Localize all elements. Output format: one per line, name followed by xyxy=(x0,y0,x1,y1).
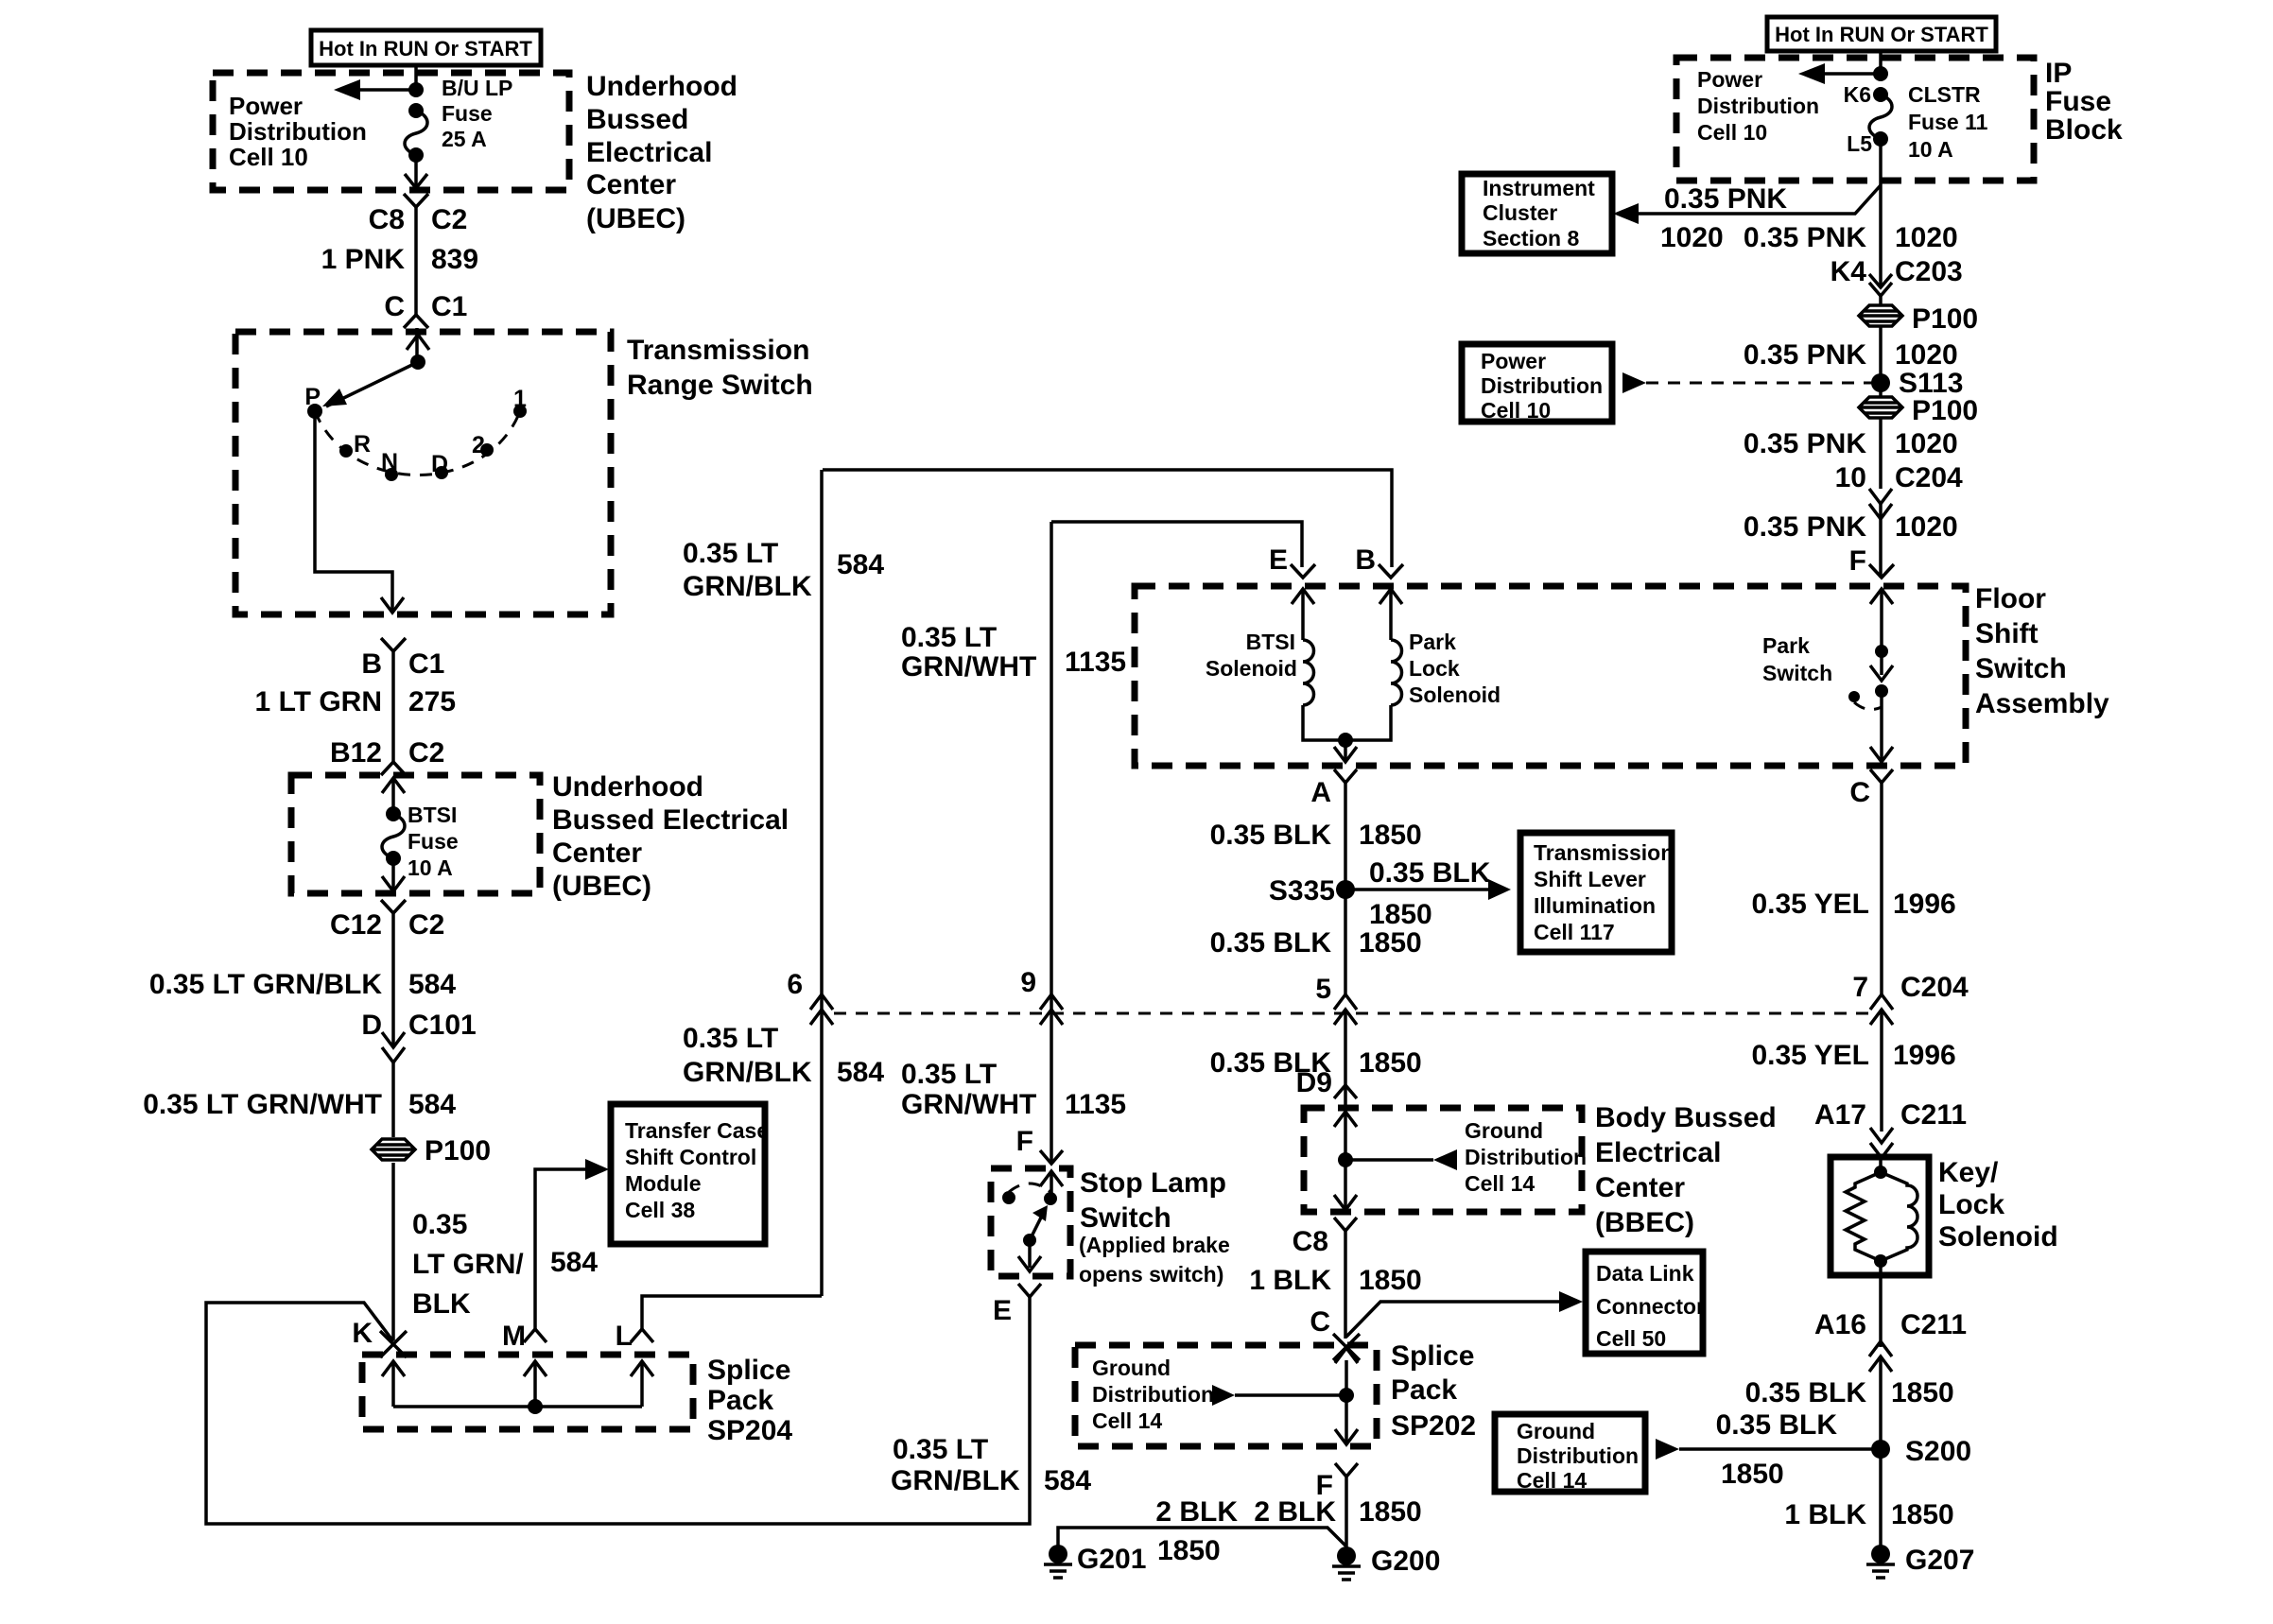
wire: SP204 L leg with arrow xyxy=(631,1361,653,1407)
reference box: Power Distribution Cell 10 xyxy=(1462,344,1612,423)
svg-text:C101: C101 xyxy=(408,1010,477,1041)
svg-text:Fuse: Fuse xyxy=(408,829,459,854)
svg-text:0.35 LT: 0.35 LT xyxy=(901,622,997,653)
svg-text:C8: C8 xyxy=(369,204,405,235)
svg-text:25 A: 25 A xyxy=(442,127,487,151)
connector A xyxy=(1310,769,1357,808)
svg-text:1 BLK: 1 BLK xyxy=(1249,1265,1331,1296)
wire: P contact to TRS output xyxy=(315,418,392,610)
svg-text:M: M xyxy=(502,1321,526,1352)
component box: Key/Lock Solenoid xyxy=(1831,1157,2058,1275)
svg-text:BLK: BLK xyxy=(412,1288,471,1320)
svg-text:LT GRN/: LT GRN/ xyxy=(412,1249,524,1280)
connector C204-7 xyxy=(1852,972,1969,1025)
svg-text:GRN/BLK: GRN/BLK xyxy=(891,1465,1020,1496)
wire: data link connector branch xyxy=(1346,1291,1583,1337)
connector L xyxy=(616,1321,653,1352)
svg-text:Switch: Switch xyxy=(1975,653,2067,684)
fuse: BTSI Fuse 10 A xyxy=(382,803,459,880)
svg-text:B/U LP: B/U LP xyxy=(442,76,512,100)
svg-text:584: 584 xyxy=(550,1247,598,1278)
svg-text:1850: 1850 xyxy=(1359,1265,1422,1296)
svg-text:P100: P100 xyxy=(425,1135,491,1166)
svg-text:Pack: Pack xyxy=(1391,1374,1457,1406)
wire: 0.35 LT GRN/BLK to splice pack xyxy=(393,1163,524,1340)
svg-text:L: L xyxy=(616,1321,633,1352)
svg-text:K4: K4 xyxy=(1831,256,1867,287)
connector B (floor shift switch assembly) xyxy=(1355,544,1403,578)
svg-text:Splice: Splice xyxy=(707,1355,790,1386)
connector C (floor shift switch) xyxy=(1849,769,1893,808)
svg-text:Switch: Switch xyxy=(1762,661,1832,685)
svg-text:D: D xyxy=(431,451,448,477)
svg-text:P: P xyxy=(304,384,321,410)
svg-text:Power: Power xyxy=(229,92,303,120)
wire: park switch to box bottom with arrow xyxy=(1870,691,1893,762)
svg-text:584: 584 xyxy=(837,1057,884,1088)
svg-text:1850: 1850 xyxy=(1359,927,1422,959)
svg-text:584: 584 xyxy=(837,549,884,580)
node: S200 xyxy=(1871,1436,1971,1467)
svg-text:SP204: SP204 xyxy=(707,1415,792,1446)
svg-text:1 PNK: 1 PNK xyxy=(321,244,406,275)
svg-text:1020: 1020 xyxy=(1660,222,1724,253)
svg-text:Switch: Switch xyxy=(1080,1202,1171,1234)
svg-text:Cell 10: Cell 10 xyxy=(1481,398,1551,423)
connector F (SP202) xyxy=(1316,1463,1358,1501)
svg-text:Transfer Case: Transfer Case xyxy=(625,1118,769,1143)
svg-text:L5: L5 xyxy=(1847,131,1872,156)
wire: L leg up to 584 junction xyxy=(642,1296,822,1329)
resistor (key/lock) xyxy=(1846,1172,1881,1261)
svg-text:C1: C1 xyxy=(408,648,444,680)
svg-text:Distribution: Distribution xyxy=(229,117,367,146)
connector C2-B12 (UBEC) xyxy=(381,762,406,775)
switch contact (fixed, left) xyxy=(1002,1191,1015,1204)
component box: Splice Pack SP202 with Ground Distribution Cell 14 xyxy=(1075,1340,1476,1446)
arrow into BTSI fuse box xyxy=(382,778,405,814)
svg-text:Connector: Connector xyxy=(1596,1294,1705,1319)
label: 0.35 BLK 1850 (below S335) xyxy=(1210,927,1422,959)
svg-text:1135: 1135 xyxy=(1065,647,1126,678)
svg-text:B: B xyxy=(1355,544,1376,576)
wire: C203 to P100 xyxy=(1879,296,1883,383)
svg-text:(UBEC): (UBEC) xyxy=(552,871,651,902)
component box: Stop Lamp Switch xyxy=(991,1167,1230,1287)
svg-text:584: 584 xyxy=(408,969,456,1000)
svg-text:0.35 LT: 0.35 LT xyxy=(683,1023,778,1054)
ground G200 xyxy=(1332,1546,1440,1580)
svg-text:2 BLK: 2 BLK xyxy=(1155,1496,1238,1528)
wire: 1135 vertical (9) xyxy=(1050,522,1053,1164)
connector 6 xyxy=(787,969,833,1025)
wire: power distribution dashed branch to S113 xyxy=(1622,372,1881,393)
label: 0.35 PNK 1020 (to S113) xyxy=(1744,339,1958,371)
grommet P100 (right lower) xyxy=(1859,395,1978,426)
switch wiper arrow to P xyxy=(322,362,418,406)
svg-text:Cluster: Cluster xyxy=(1483,200,1557,225)
component box: Underhood Bussed Electrical Center (UBEC) xyxy=(213,71,737,234)
switch arm with arrow xyxy=(1030,1205,1048,1240)
fuse: B/U LP Fuse 25 A xyxy=(405,76,512,163)
wire: SP202 out with arrow xyxy=(1335,1395,1358,1444)
wire: S113 to P100 lower xyxy=(1879,383,1883,489)
svg-text:Underhood: Underhood xyxy=(552,771,703,803)
connector M xyxy=(502,1321,547,1352)
svg-text:0.35 PNK: 0.35 PNK xyxy=(1744,339,1866,371)
svg-text:0.35 YEL: 0.35 YEL xyxy=(1751,1040,1869,1071)
wire: BBEC out with arrow xyxy=(1334,1160,1357,1210)
wire: 1 BLK 1850 xyxy=(1249,1231,1421,1339)
svg-text:BTSI: BTSI xyxy=(1246,630,1295,654)
svg-text:0.35 BLK: 0.35 BLK xyxy=(1716,1409,1838,1441)
arrow into floor box (park feed) xyxy=(1870,589,1893,604)
connector E (stop lamp switch) xyxy=(993,1284,1041,1326)
flag box: Hot In RUN Or START (right) xyxy=(1767,17,1996,51)
connector C2 (UBEC) xyxy=(404,194,428,207)
wire: instrument cluster branch xyxy=(1613,183,1881,253)
svg-text:C8: C8 xyxy=(1293,1226,1328,1257)
label: 0.35 PNK 1020 (to C203) xyxy=(1744,222,1963,287)
svg-text:GRN/WHT: GRN/WHT xyxy=(901,651,1036,682)
svg-text:Electrical: Electrical xyxy=(1595,1137,1721,1168)
wire: fuse output down through IP box xyxy=(1879,139,1883,288)
switch arm park switch (arrow) xyxy=(1870,651,1893,681)
svg-text:Electrical: Electrical xyxy=(586,137,712,168)
svg-text:Cell 14: Cell 14 xyxy=(1092,1408,1162,1433)
svg-text:Shift Lever: Shift Lever xyxy=(1534,867,1646,891)
svg-text:Section 8: Section 8 xyxy=(1483,226,1579,251)
svg-text:Transmission: Transmission xyxy=(1534,840,1674,865)
reference box: Transmission Shift Lever Illumination Cell 117 xyxy=(1520,833,1674,952)
wire: 1135 horizontal to BTSI solenoid E xyxy=(1051,522,1302,567)
svg-text:1020: 1020 xyxy=(1895,339,1958,371)
svg-text:Shift: Shift xyxy=(1975,618,2039,649)
svg-text:10 A: 10 A xyxy=(408,855,453,880)
coil: BTSI Solenoid xyxy=(1206,630,1314,705)
svg-text:C204: C204 xyxy=(1895,462,1963,493)
switch contact 2 xyxy=(472,432,494,458)
reference box: Data Link Connector Cell 50 xyxy=(1586,1252,1705,1354)
svg-text:Lock: Lock xyxy=(1409,656,1460,681)
svg-text:(Applied brake: (Applied brake xyxy=(1079,1233,1230,1257)
svg-text:Data Link: Data Link xyxy=(1596,1261,1694,1286)
switch pivot xyxy=(1023,1234,1036,1247)
flag box: Hot In RUN Or START (left) xyxy=(311,30,541,65)
svg-text:Solenoid: Solenoid xyxy=(1409,682,1501,707)
label: 0.35 LT GRN/WHT 1135 (top) xyxy=(901,622,1126,682)
svg-text:839: 839 xyxy=(431,244,478,275)
svg-text:C12: C12 xyxy=(330,909,382,941)
wire: key/lock to A16 xyxy=(1879,1261,1883,1347)
svg-text:Cell 10: Cell 10 xyxy=(229,143,308,171)
connector C8 (BBEC) xyxy=(1293,1218,1357,1257)
switch contact R xyxy=(339,431,371,458)
svg-text:1850: 1850 xyxy=(1359,1047,1422,1079)
svg-text:10 A: 10 A xyxy=(1908,137,1953,162)
svg-text:0.35 PNK: 0.35 PNK xyxy=(1744,222,1866,253)
svg-text:G200: G200 xyxy=(1371,1546,1440,1577)
svg-text:Body Bussed: Body Bussed xyxy=(1595,1102,1777,1133)
svg-text:7: 7 xyxy=(1852,972,1868,1003)
svg-text:1850: 1850 xyxy=(1891,1377,1954,1408)
svg-text:1850: 1850 xyxy=(1359,820,1422,851)
svg-text:2 BLK: 2 BLK xyxy=(1254,1496,1336,1528)
arrow into box (B leg) xyxy=(1379,589,1402,640)
component box: UBEC (BTSI fuse) xyxy=(291,771,789,902)
svg-text:G207: G207 xyxy=(1905,1545,1974,1576)
svg-text:Illumination: Illumination xyxy=(1534,893,1656,918)
svg-text:Floor: Floor xyxy=(1975,583,2046,614)
svg-text:C1: C1 xyxy=(431,291,467,322)
grommet P100 (left) xyxy=(372,1135,491,1166)
ground G207 xyxy=(1866,1545,1974,1578)
wire: SP202 ground distribution branch xyxy=(1212,1385,1346,1406)
svg-text:A: A xyxy=(1310,777,1331,808)
wire: 1 PNK 839 xyxy=(321,204,478,322)
svg-text:9: 9 xyxy=(1020,967,1036,998)
node: solenoid common xyxy=(1338,733,1353,748)
svg-text:Solenoid: Solenoid xyxy=(1206,656,1297,681)
grommet P100 (right upper) xyxy=(1859,303,1978,335)
svg-text:1996: 1996 xyxy=(1893,1040,1956,1071)
svg-text:C2: C2 xyxy=(431,204,467,235)
svg-text:0.35 PNK: 0.35 PNK xyxy=(1664,183,1787,215)
arrow into box (E leg) xyxy=(1292,589,1314,640)
svg-text:GRN/WHT: GRN/WHT xyxy=(901,1089,1036,1120)
wire: S335 branch to illumination with labels xyxy=(1345,857,1511,930)
node: BBEC ground splice xyxy=(1338,1152,1353,1167)
label: 0.35 LT GRN/BLK 584 (top) xyxy=(683,538,884,602)
connector 5 xyxy=(1315,974,1357,1025)
node: TRS common xyxy=(410,354,425,370)
svg-text:Ground: Ground xyxy=(1517,1419,1595,1443)
wire: power distribution branch arrow (IP) xyxy=(1798,63,1888,84)
svg-text:1 LT GRN: 1 LT GRN xyxy=(255,686,382,717)
svg-text:S200: S200 xyxy=(1905,1436,1971,1467)
svg-text:5: 5 xyxy=(1315,974,1331,1005)
svg-text:CLSTR: CLSTR xyxy=(1908,82,1981,107)
svg-text:IP: IP xyxy=(2045,58,2072,89)
component box: Body Bussed Electrical Center (BBEC) xyxy=(1304,1102,1777,1238)
svg-text:6: 6 xyxy=(787,969,803,1000)
svg-text:Bussed: Bussed xyxy=(586,104,688,135)
svg-text:Distribution: Distribution xyxy=(1697,94,1819,118)
svg-text:A17: A17 xyxy=(1814,1099,1866,1131)
wire: 0.35 BLK 1850 (A16 to S200) xyxy=(1745,1356,1954,1555)
coil (key/lock) xyxy=(1881,1172,1917,1261)
svg-text:1020: 1020 xyxy=(1895,222,1958,253)
park switch throw arc xyxy=(1854,702,1882,710)
wire: 1 LT GRN 275 xyxy=(255,648,457,769)
svg-text:Key/: Key/ xyxy=(1938,1157,1999,1188)
svg-text:0.35 BLK: 0.35 BLK xyxy=(1210,927,1332,959)
svg-text:0.35 BLK: 0.35 BLK xyxy=(1745,1377,1867,1408)
svg-text:Park: Park xyxy=(1409,630,1456,654)
wire: common out of box with arrow xyxy=(1334,740,1357,762)
node: S335 xyxy=(1269,875,1355,907)
svg-text:Ground: Ground xyxy=(1465,1118,1543,1143)
switch contact P xyxy=(304,384,322,419)
label: 0.35 LT GRN/WHT 1135 (lower) xyxy=(901,1059,1126,1120)
svg-text:C204: C204 xyxy=(1900,972,1969,1003)
svg-text:0.35 YEL: 0.35 YEL xyxy=(1751,889,1869,920)
switch contact N xyxy=(381,449,398,481)
svg-text:Center: Center xyxy=(552,838,642,869)
wire: ground distribution to S200 xyxy=(1656,1409,1881,1490)
label: 0.35 LT GRN/BLK 584 (stop lamp out) xyxy=(891,1434,1091,1496)
svg-text:1996: 1996 xyxy=(1893,889,1956,920)
svg-text:R: R xyxy=(354,431,371,458)
svg-text:1 BLK: 1 BLK xyxy=(1784,1499,1866,1530)
svg-text:0.35 LT GRN/WHT: 0.35 LT GRN/WHT xyxy=(143,1089,382,1120)
svg-text:(BBEC): (BBEC) xyxy=(1595,1207,1694,1238)
connector C203-K4 xyxy=(1869,274,1892,296)
svg-text:Instrument: Instrument xyxy=(1483,176,1595,200)
svg-text:2: 2 xyxy=(472,432,485,458)
connector E (floor shift switch assembly) xyxy=(1269,544,1315,578)
svg-text:F: F xyxy=(1016,1126,1033,1157)
svg-text:Distribution: Distribution xyxy=(1092,1382,1214,1407)
svg-text:Power: Power xyxy=(1481,349,1546,373)
reference box: Transfer Case Shift Control Module Cell 38 xyxy=(611,1104,769,1244)
wire: fuse to box bottom with arrow xyxy=(382,858,405,891)
connector C211-A16 xyxy=(1814,1309,1967,1372)
svg-text:Ground: Ground xyxy=(1092,1356,1171,1380)
wire: 0.35 YEL 1996 (C204 to C211) xyxy=(1751,1010,1955,1132)
label: 1 BLK 1850 xyxy=(1784,1499,1953,1530)
wire: 584 vertical (6) xyxy=(820,470,824,1296)
wire: G201 to G200 link xyxy=(1058,1528,1346,1566)
svg-text:1850: 1850 xyxy=(1359,1496,1422,1528)
svg-text:1135: 1135 xyxy=(1065,1089,1126,1120)
svg-text:Power: Power xyxy=(1697,67,1762,92)
svg-text:0.35 LT: 0.35 LT xyxy=(683,538,778,569)
label: 0.35 LT GRN/BLK 584 (lower) xyxy=(683,1023,884,1088)
svg-text:0.35: 0.35 xyxy=(412,1209,467,1240)
svg-text:Distribution: Distribution xyxy=(1517,1443,1639,1468)
svg-text:Cell 50: Cell 50 xyxy=(1596,1326,1666,1351)
svg-text:E: E xyxy=(1269,544,1288,576)
node: key/lock top xyxy=(1879,1155,1883,1172)
svg-text:Range Switch: Range Switch xyxy=(627,370,813,401)
wire: 0.35 BLK 1850 (5 to D9) xyxy=(1210,1010,1422,1085)
wire: power distribution branch arrow (UBEC) xyxy=(334,79,424,100)
svg-text:BTSI: BTSI xyxy=(408,803,457,827)
svg-text:Underhood: Underhood xyxy=(586,71,737,102)
svg-text:Fuse: Fuse xyxy=(442,101,493,126)
svg-text:P100: P100 xyxy=(1912,303,1978,335)
svg-text:1020: 1020 xyxy=(1895,511,1958,543)
svg-text:C: C xyxy=(1310,1306,1330,1338)
component box: Floor Shift Switch Assembly xyxy=(1135,583,2109,766)
wire: hot feed into UBEC xyxy=(414,65,418,90)
svg-text:0.35 PNK: 0.35 PNK xyxy=(1744,428,1866,459)
connector K (splice pack SP204) xyxy=(352,1318,407,1357)
switch contact D xyxy=(431,451,448,479)
fuse: CLSTR Fuse 11 10 A xyxy=(1844,82,1988,162)
reference box: Ground Distribution Cell 14 (solid) xyxy=(1495,1414,1645,1493)
svg-text:Distribution: Distribution xyxy=(1465,1145,1587,1169)
svg-text:opens switch): opens switch) xyxy=(1079,1262,1223,1287)
svg-text:Bussed Electrical: Bussed Electrical xyxy=(552,804,789,836)
svg-text:C211: C211 xyxy=(1900,1309,1967,1340)
svg-text:(UBEC): (UBEC) xyxy=(586,203,685,234)
svg-text:Park: Park xyxy=(1762,633,1810,658)
svg-text:Center: Center xyxy=(586,169,676,200)
switch contact 1 xyxy=(513,386,527,418)
page separator dashed line xyxy=(834,1012,1877,1015)
svg-text:C: C xyxy=(1849,777,1870,808)
svg-text:1850: 1850 xyxy=(1721,1459,1784,1490)
splice bus SP204 xyxy=(393,1405,642,1408)
svg-text:0.35 LT: 0.35 LT xyxy=(901,1059,997,1090)
park switch pivot dot and label xyxy=(1762,633,1860,702)
svg-text:Solenoid: Solenoid xyxy=(1938,1221,2058,1253)
svg-text:B12: B12 xyxy=(330,737,382,769)
connector C101-D xyxy=(382,1032,405,1063)
svg-text:584: 584 xyxy=(408,1089,456,1120)
connector 9 xyxy=(1020,967,1063,1025)
connector F (floor shift switch) xyxy=(1849,545,1894,578)
connector C1-B (below TRS) xyxy=(381,638,406,651)
svg-text:0.35 BLK: 0.35 BLK xyxy=(1210,820,1332,851)
svg-text:Assembly: Assembly xyxy=(1975,688,2109,719)
svg-text:275: 275 xyxy=(408,686,456,717)
arrow into stop lamp switch xyxy=(1040,1171,1063,1199)
connector C204-10 xyxy=(1869,489,1892,519)
wire: park switch feed inside box xyxy=(1880,589,1883,651)
arrow into BBEC xyxy=(1334,1085,1357,1160)
svg-text:C: C xyxy=(384,291,405,322)
svg-text:0.35 PNK: 0.35 PNK xyxy=(1744,511,1866,543)
component box: IP Fuse Block xyxy=(1676,58,2123,181)
ground G201 xyxy=(1044,1544,1146,1578)
svg-text:D9: D9 xyxy=(1296,1067,1332,1098)
svg-text:GRN/BLK: GRN/BLK xyxy=(683,571,812,602)
wire: switch pivot to box bottom with arrow xyxy=(1018,1240,1041,1271)
svg-text:Splice: Splice xyxy=(1391,1340,1474,1372)
node: SP204 splice xyxy=(528,1399,543,1414)
svg-text:Fuse: Fuse xyxy=(2045,86,2111,117)
svg-text:Fuse 11: Fuse 11 xyxy=(1908,110,1988,134)
svg-text:1: 1 xyxy=(513,386,527,412)
svg-text:Cell 117: Cell 117 xyxy=(1534,920,1615,944)
svg-text:GRN/BLK: GRN/BLK xyxy=(683,1057,812,1088)
wire: 584 horizontal to park lock solenoid B xyxy=(823,470,1392,567)
wire: into transmission range switch xyxy=(415,328,419,362)
wire: 0.35 BLK 1850 (A to S335) xyxy=(1210,783,1422,994)
svg-text:1850: 1850 xyxy=(1157,1535,1221,1566)
component box: Transmission Range Switch xyxy=(235,332,813,614)
wire: solenoid common bus xyxy=(1303,705,1391,740)
wire: fuse output to UBEC border with arrow xyxy=(405,155,427,188)
svg-text:Hot In RUN Or START: Hot In RUN Or START xyxy=(1775,23,1988,46)
svg-text:Distribution: Distribution xyxy=(1481,373,1603,398)
switch contact arc P-R-N-D-2-1 xyxy=(315,411,520,475)
wire: 584 to Transfer Case Shift Control Module xyxy=(535,1159,609,1329)
wire: SP204 M leg with arrow xyxy=(524,1361,547,1407)
wire: loop from stop lamp switch E to K xyxy=(206,1297,1030,1524)
switch contact (fixed, right) xyxy=(1044,1192,1057,1205)
svg-text:S335: S335 xyxy=(1269,875,1335,907)
svg-text:C2: C2 xyxy=(408,909,444,941)
svg-text:K: K xyxy=(352,1318,373,1349)
svg-text:Block: Block xyxy=(2045,114,2123,146)
svg-text:Center: Center xyxy=(1595,1172,1685,1203)
wire: 0.35 LT GRN/WHT 584 xyxy=(143,1063,456,1137)
arrow into SP202 xyxy=(1335,1348,1358,1395)
